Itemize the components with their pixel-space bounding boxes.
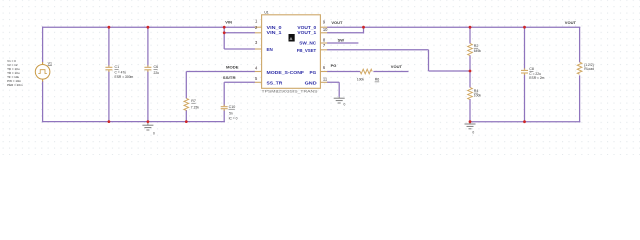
wire C1 branch — [108, 27, 110, 121]
svg-text:A: A — [290, 36, 293, 41]
svg-text:SW_NC: SW_NC — [299, 41, 316, 47]
IC pin stubs left — [255, 27, 262, 82]
svg-text:VOUT: VOUT — [391, 64, 403, 69]
svg-text:7.15k: 7.15k — [191, 106, 199, 110]
wire RLoad branch — [579, 27, 581, 122]
wire PG left of R6 — [327, 71, 360, 73]
svg-text:100k: 100k — [357, 78, 365, 82]
svg-text:EN: EN — [267, 47, 274, 53]
svg-text:11: 11 — [323, 76, 328, 81]
svg-text:C8: C8 — [529, 67, 534, 71]
ground left (net 0) — [142, 122, 153, 130]
svg-text:U1: U1 — [264, 11, 269, 15]
wire pin2 tap — [224, 32, 255, 34]
svg-text:VIN: VIN — [225, 20, 232, 25]
wire FB net — [327, 50, 470, 71]
pin names right — [297, 25, 317, 86]
capacitor C10 — [221, 105, 228, 111]
wire bottom rail left — [42, 121, 225, 123]
wire R2 branch top — [469, 27, 471, 44]
svg-text:R6: R6 — [375, 78, 380, 82]
svg-text:10: 10 — [323, 27, 328, 32]
svg-text:R4: R4 — [474, 89, 479, 93]
wire top rail VIN — [43, 26, 255, 28]
svg-text:ESR = 300m: ESR = 300m — [115, 75, 134, 79]
svg-text:0: 0 — [344, 102, 346, 106]
wire pin10 jog — [327, 27, 364, 33]
ground middle (net 0) — [334, 97, 345, 103]
svg-text:R7: R7 — [191, 99, 196, 103]
wire VOUT rail right — [327, 26, 580, 28]
svg-text:VIN_1: VIN_1 — [267, 30, 282, 36]
svg-text:0: 0 — [153, 131, 155, 135]
svg-text:C6: C6 — [154, 65, 159, 69]
svg-text:SS/TR: SS/TR — [223, 75, 236, 80]
capacitor C6 — [144, 65, 151, 72]
resistor R6 — [360, 69, 372, 74]
wire MODE net — [186, 72, 255, 122]
voltage source V1 — [35, 62, 50, 82]
wire R2 to FB node — [469, 55, 471, 71]
svg-text:C10: C10 — [229, 105, 236, 109]
wire FB node to R4 — [469, 71, 471, 88]
svg-text:C = 47u: C = 47u — [115, 70, 127, 74]
ground right (net 0) — [465, 122, 476, 129]
svg-text:C1: C1 — [115, 65, 120, 69]
svg-text:MODE: MODE — [226, 65, 239, 70]
wire SW stub — [327, 42, 358, 44]
svg-text:VOUT: VOUT — [565, 20, 577, 25]
resistor R4 — [468, 88, 473, 100]
svg-text:5n: 5n — [229, 112, 233, 116]
svg-text:R2: R2 — [474, 44, 479, 48]
wire C8 branch — [524, 27, 526, 122]
svg-text:100k: 100k — [474, 93, 482, 97]
svg-text:0: 0 — [472, 130, 474, 134]
IC pin stubs right — [320, 27, 327, 82]
svg-text:649k: 649k — [474, 49, 482, 53]
svg-text:VOUT_1: VOUT_1 — [297, 30, 316, 36]
svg-text:TPSM82903SIS_TRANS: TPSM82903SIS_TRANS — [262, 90, 319, 94]
svg-text:ESR = 2m: ESR = 2m — [529, 76, 544, 80]
pin numbers right — [323, 19, 328, 81]
wire V1 vertical top — [42, 27, 44, 63]
resistor R2 — [468, 44, 473, 56]
svg-text:PER = 20m: PER = 20m — [7, 83, 23, 87]
svg-text:PG: PG — [310, 70, 317, 76]
wire R4 to bottom — [469, 99, 471, 122]
capacitor C1 — [105, 65, 112, 72]
svg-text:PG: PG — [331, 63, 337, 68]
svg-text:V1: V1 — [48, 61, 52, 65]
pin names left — [267, 25, 305, 86]
pin numbers left — [255, 18, 258, 81]
svg-text:GND: GND — [305, 80, 318, 86]
resistor RLoad — [577, 62, 582, 74]
wire bottom rail right — [470, 121, 580, 123]
wire VIN vertical to EN — [224, 27, 255, 49]
svg-text:SW: SW — [338, 37, 345, 42]
wire C6 branch — [147, 27, 149, 121]
probe icon inside U1 — [289, 34, 295, 42]
svg-text:FB_VSET: FB_VSET — [297, 48, 317, 54]
svg-text:22u: 22u — [154, 71, 160, 75]
wire SS_TR net — [224, 82, 255, 122]
svg-text:MODE_S-CONF: MODE_S-CONF — [267, 70, 305, 76]
svg-text:RLoad: RLoad — [584, 67, 594, 71]
V1 parameter text block — [7, 59, 23, 87]
wire PG right of R6 to VOUT label — [373, 71, 408, 73]
svg-text:VOUT: VOUT — [331, 20, 343, 25]
capacitor C8 — [521, 68, 528, 75]
wire GND pin11 — [327, 82, 339, 97]
resistor R7 — [184, 98, 189, 110]
IC U1 body — [262, 15, 321, 89]
wire V1 vertical bottom — [42, 81, 44, 122]
svg-text:SS_TR: SS_TR — [267, 80, 283, 86]
svg-text:IC = 0: IC = 0 — [229, 116, 238, 120]
